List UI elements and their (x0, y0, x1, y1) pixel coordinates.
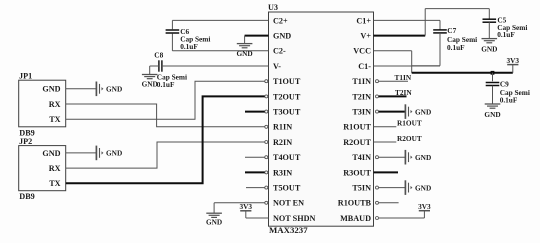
svg-text:T1IN: T1IN (352, 77, 371, 86)
svg-text:T1IN: T1IN (395, 73, 412, 82)
svg-text:GND: GND (415, 153, 431, 162)
svg-text:R2OUT: R2OUT (343, 138, 371, 147)
svg-text:R1OUT: R1OUT (397, 119, 422, 128)
svg-text:R3OUT: R3OUT (343, 168, 371, 177)
svg-text:C2+: C2+ (273, 16, 288, 25)
svg-text:MAX3237: MAX3237 (269, 225, 308, 235)
svg-text:TX: TX (49, 179, 60, 188)
svg-text:0.1uF: 0.1uF (447, 43, 465, 52)
svg-text:V-: V- (273, 62, 281, 71)
svg-text:GND: GND (481, 45, 497, 54)
svg-text:T3IN: T3IN (352, 108, 371, 117)
svg-text:0.1uF: 0.1uF (180, 42, 198, 51)
svg-text:T5OUT: T5OUT (273, 184, 301, 193)
svg-text:GND: GND (484, 110, 500, 119)
svg-text:GND: GND (415, 183, 431, 192)
svg-text:0.1uF: 0.1uF (157, 80, 175, 89)
svg-text:VCC: VCC (353, 47, 371, 56)
svg-text:GND: GND (42, 85, 60, 94)
svg-text:0.1uF: 0.1uF (497, 30, 515, 39)
svg-text:V+: V+ (360, 32, 371, 41)
svg-text:3V3: 3V3 (240, 202, 253, 211)
svg-text:JP2: JP2 (19, 137, 32, 146)
svg-text:T2IN: T2IN (395, 88, 412, 97)
svg-text:JP1: JP1 (19, 71, 32, 80)
svg-text:C1-: C1- (358, 62, 371, 71)
svg-text:R1OUT: R1OUT (343, 123, 371, 132)
svg-text:R3IN: R3IN (273, 168, 292, 177)
svg-text:T4OUT: T4OUT (273, 153, 301, 162)
svg-text:GND: GND (106, 85, 122, 94)
svg-text:T5IN: T5IN (352, 184, 371, 193)
svg-text:T2IN: T2IN (352, 92, 371, 101)
svg-text:3V3: 3V3 (507, 56, 520, 65)
svg-text:T4IN: T4IN (352, 153, 371, 162)
svg-text:GND: GND (42, 149, 60, 158)
svg-text:C1+: C1+ (356, 16, 371, 25)
svg-text:GND: GND (415, 107, 431, 116)
svg-text:C2-: C2- (273, 47, 286, 56)
svg-text:R1OUTB: R1OUTB (338, 199, 372, 208)
svg-text:C7: C7 (447, 26, 456, 35)
svg-text:U3: U3 (268, 3, 278, 12)
svg-text:0.1uF: 0.1uF (500, 96, 518, 105)
svg-text:RX: RX (49, 100, 61, 109)
svg-text:3V3: 3V3 (418, 202, 431, 211)
svg-text:NOT EN: NOT EN (273, 199, 304, 208)
svg-text:MBAUD: MBAUD (340, 214, 371, 223)
svg-text:GND: GND (106, 149, 122, 158)
svg-text:R2IN: R2IN (273, 138, 292, 147)
svg-text:GND: GND (273, 32, 291, 41)
svg-text:NOT SHDN: NOT SHDN (273, 214, 315, 223)
svg-text:R1IN: R1IN (273, 123, 292, 132)
svg-text:GND: GND (142, 80, 158, 89)
svg-text:GND: GND (236, 49, 252, 58)
svg-text:GND: GND (206, 218, 222, 227)
svg-text:DB9: DB9 (19, 192, 34, 201)
svg-text:R2OUT: R2OUT (397, 134, 422, 143)
svg-text:TX: TX (49, 115, 60, 124)
svg-text:C8: C8 (154, 51, 163, 60)
svg-text:T3OUT: T3OUT (273, 108, 301, 117)
svg-text:T2OUT: T2OUT (273, 92, 301, 101)
svg-text:T1OUT: T1OUT (273, 77, 301, 86)
svg-text:RX: RX (49, 164, 61, 173)
